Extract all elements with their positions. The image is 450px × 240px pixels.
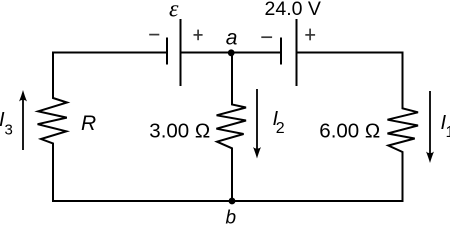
svg-text:3.00 Ω: 3.00 Ω bbox=[149, 120, 210, 143]
svg-text:2: 2 bbox=[276, 120, 285, 137]
svg-text:24.0 V: 24.0 V bbox=[265, 0, 321, 20]
svg-text:b: b bbox=[226, 208, 237, 226]
svg-text:1: 1 bbox=[446, 124, 450, 141]
svg-text:R: R bbox=[81, 112, 96, 135]
svg-text:6.00 Ω: 6.00 Ω bbox=[319, 120, 380, 143]
svg-text:ε: ε bbox=[169, 0, 179, 23]
svg-text:a: a bbox=[226, 27, 238, 50]
svg-text:3: 3 bbox=[5, 122, 13, 139]
